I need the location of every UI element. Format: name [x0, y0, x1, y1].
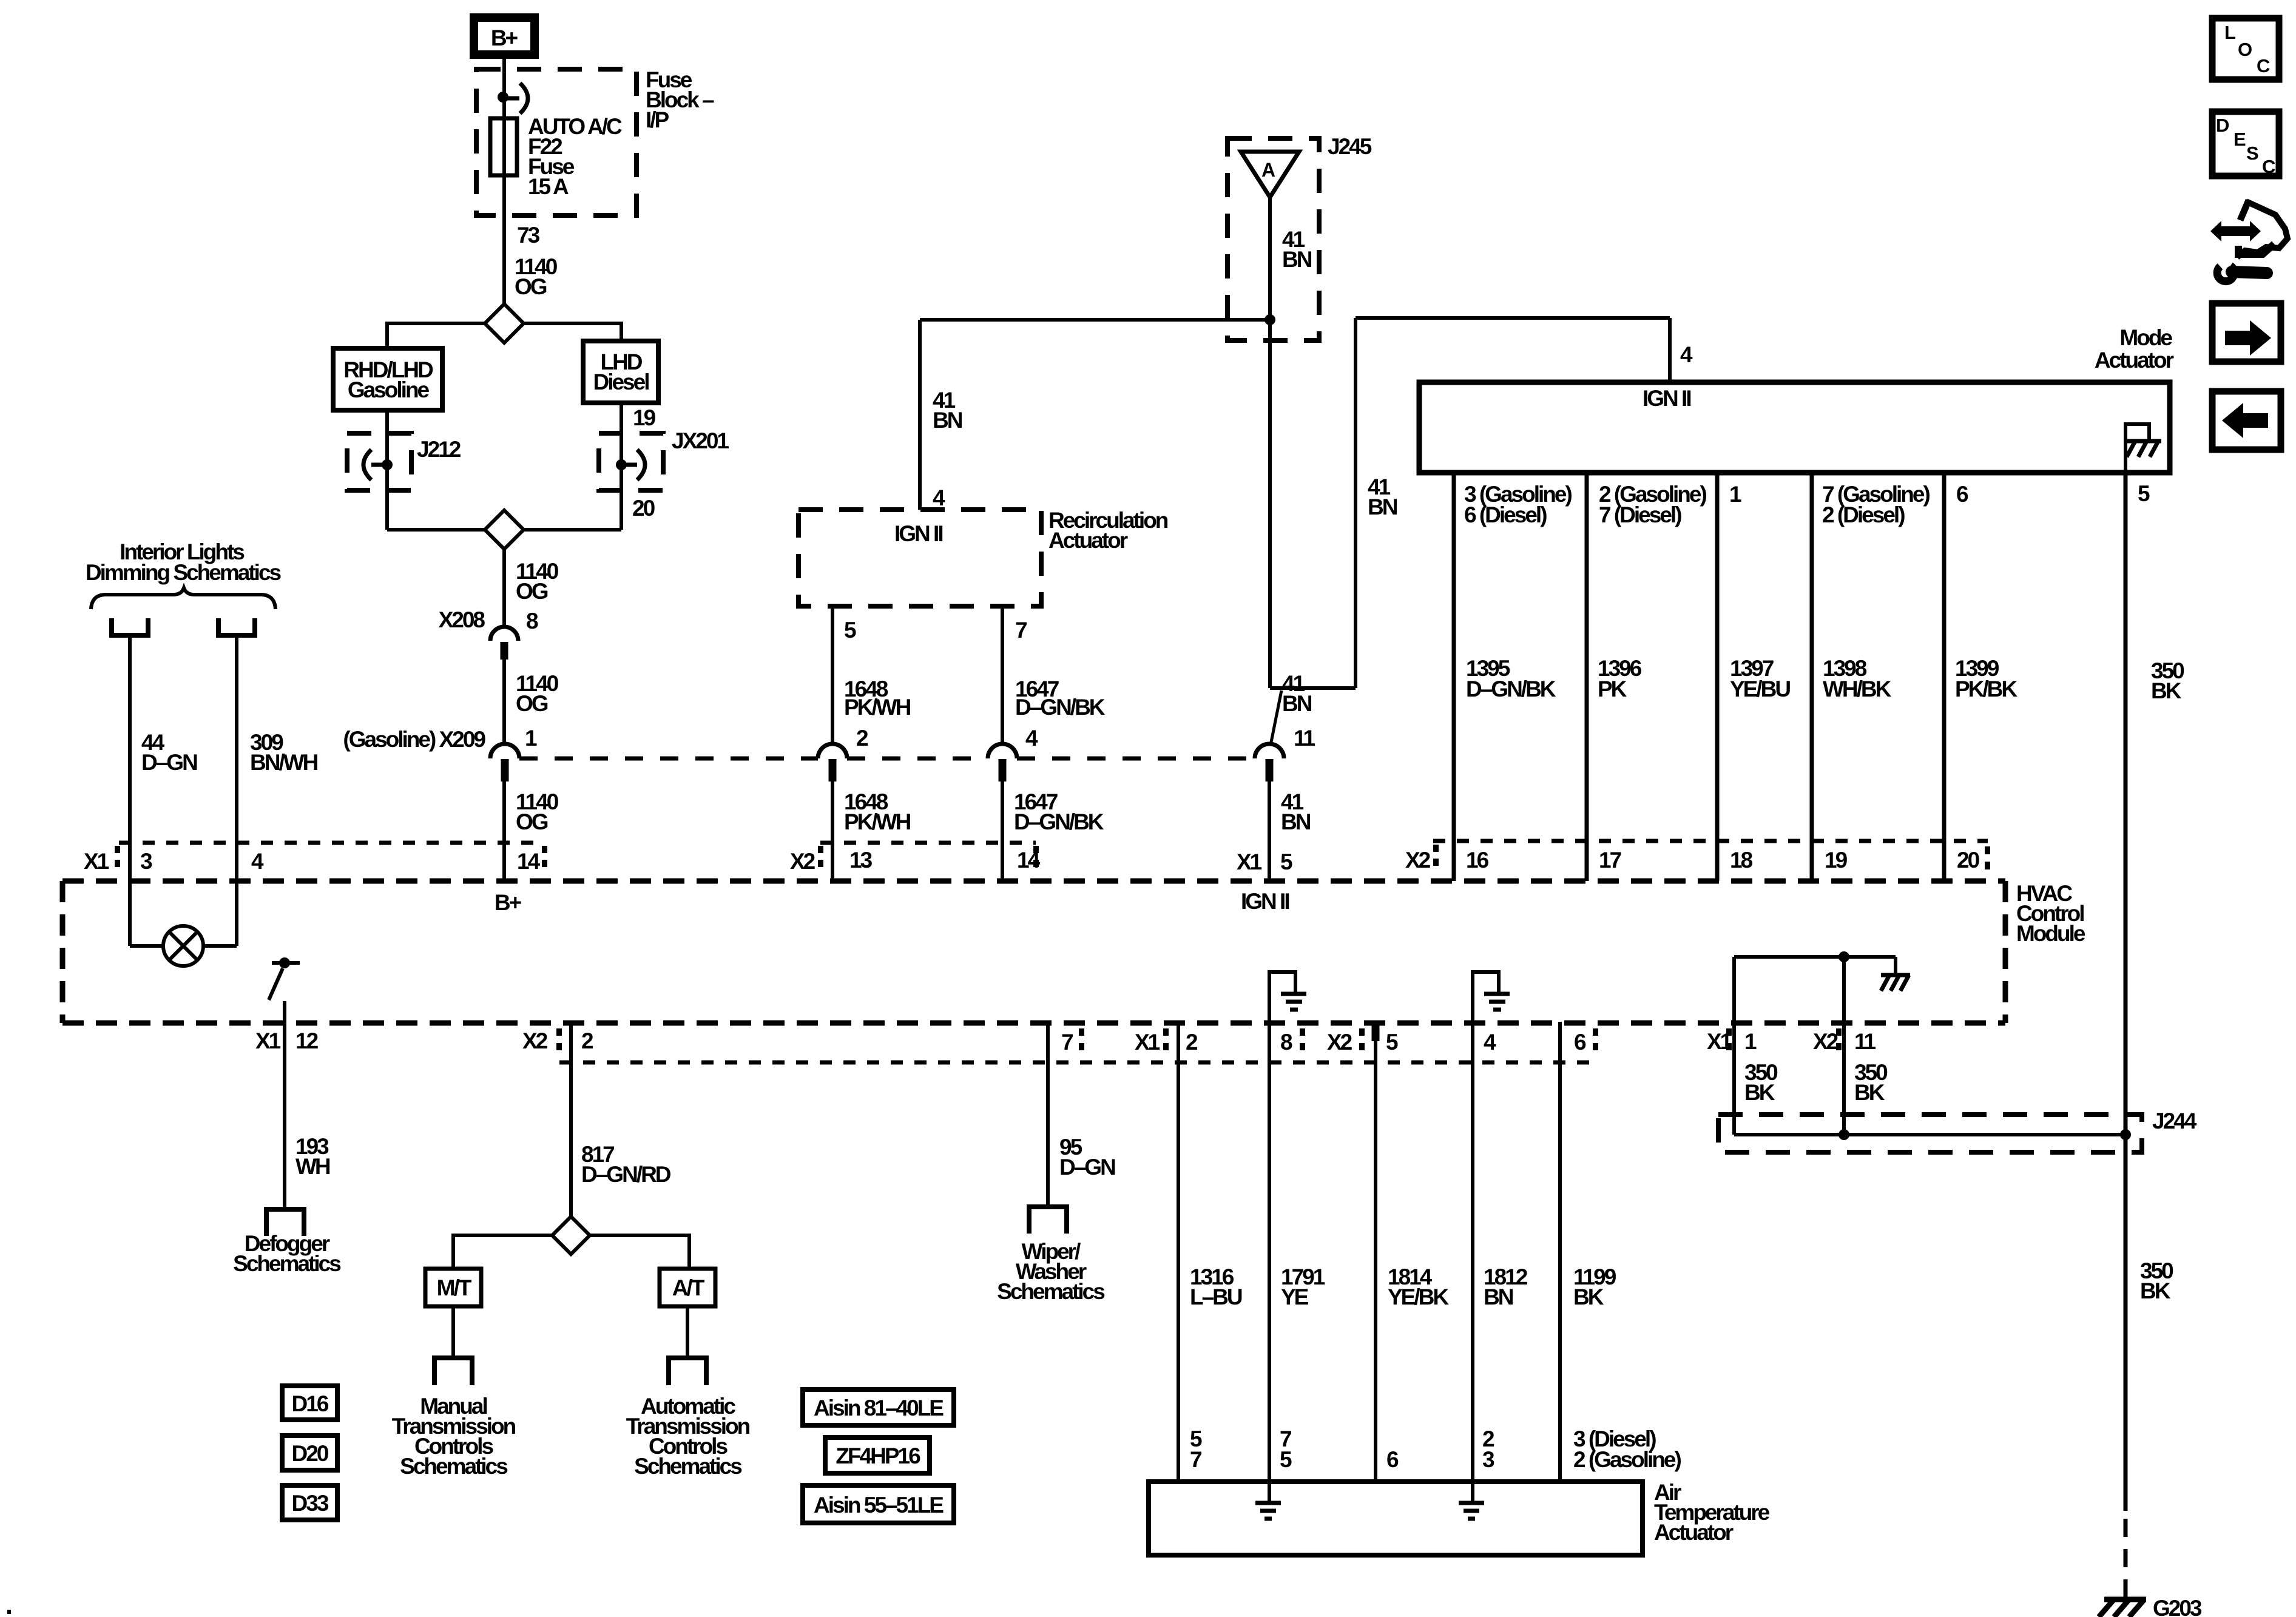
svg-text:16: 16 [1466, 848, 1489, 873]
mode actuator IGN II box [1419, 382, 2170, 473]
stray dot [7, 1610, 11, 1614]
wire 1395 D-GN/BK [1452, 473, 1456, 881]
svg-text:7: 7 [1190, 1447, 1201, 1472]
svg-text:6: 6 [1956, 482, 1968, 507]
svg-text:7: 7 [1061, 1030, 1073, 1055]
wire 1812 BN pin 4 [1471, 1022, 1474, 1502]
svg-text:73: 73 [517, 223, 540, 248]
offpage connector left [112, 618, 148, 635]
svg-text:6: 6 [1386, 1447, 1399, 1472]
svg-text:X2: X2 [1813, 1029, 1838, 1054]
svg-text:A: A [1261, 159, 1275, 181]
svg-text:D–GN/BK: D–GN/BK [1466, 677, 1556, 701]
wire B+ to fuse block and diamond [502, 59, 506, 304]
svg-text:20: 20 [632, 496, 655, 521]
ref box D16 [282, 1386, 337, 1420]
wire 1791 YE pin 8 [1268, 1022, 1271, 1502]
wire 1140 OG to module pin 14 [502, 781, 506, 881]
wire RHD branch down [385, 410, 389, 530]
wire merge right [524, 528, 621, 532]
svg-text:WH/BK: WH/BK [1823, 677, 1892, 701]
svg-text:BN: BN [1282, 691, 1312, 716]
svg-text:OG: OG [516, 579, 548, 604]
svg-text:5: 5 [1280, 849, 1292, 874]
svg-text:X1: X1 [1135, 1030, 1160, 1055]
icon adjust double arrow [2210, 221, 2261, 241]
wire 41 BN inside J245 [1268, 197, 1272, 320]
wire diagonal to pin 11 [1271, 690, 1281, 745]
pin box X1 top left [119, 841, 544, 845]
wire J244 bus [1734, 1133, 2125, 1136]
ground hook pin 8 [1269, 972, 1295, 1022]
svg-text:D: D [2216, 115, 2229, 136]
svg-text:PK: PK [1598, 677, 1627, 701]
svg-text:X1: X1 [255, 1028, 281, 1053]
svg-text:X1: X1 [1707, 1029, 1732, 1054]
wire 309 BN/WH [235, 635, 238, 946]
ref box D33 [282, 1485, 337, 1520]
svg-text:Schematics: Schematics [233, 1251, 341, 1276]
bottom pin row small dash [559, 1061, 1597, 1065]
lamp symbol [163, 926, 203, 966]
wire LHD branch down [620, 403, 623, 530]
svg-text:3: 3 [1482, 1447, 1494, 1472]
earth ground pin 8 [1281, 994, 1306, 1010]
svg-text:14: 14 [1017, 848, 1041, 873]
svg-text:Diesel: Diesel [593, 370, 649, 394]
connector arc pin 11 [1255, 744, 1284, 758]
splice pack J245 dashed box [1227, 138, 1319, 340]
svg-text:Module: Module [2016, 921, 2085, 946]
svg-text:M/T: M/T [437, 1275, 472, 1300]
svg-text:JX201: JX201 [672, 428, 729, 453]
svg-text:17: 17 [1599, 848, 1621, 873]
svg-text:1: 1 [525, 726, 537, 751]
offpage connector wiper/washer [1029, 1207, 1067, 1234]
svg-text:A/T: A/T [672, 1275, 705, 1300]
svg-text:B+: B+ [495, 890, 522, 915]
svg-text:5: 5 [844, 618, 856, 643]
splice diamond upper [485, 304, 524, 343]
wire 1397 YE/BU [1715, 473, 1720, 881]
fuse F22 15A [490, 118, 517, 175]
splice J212 dashed box [347, 433, 411, 490]
wire to recirculation actuator [920, 318, 1270, 322]
svg-text:19: 19 [633, 405, 656, 430]
svg-text:X2: X2 [1327, 1030, 1352, 1055]
svg-text:Schematics: Schematics [634, 1454, 742, 1479]
svg-text:(Gasoline) X209: (Gasoline) X209 [343, 727, 485, 752]
option box A/T [660, 1269, 715, 1306]
svg-text:YE/BU: YE/BU [1730, 677, 1790, 701]
option box RHD/LHD Gasoline [333, 348, 442, 410]
icon LOC box [2212, 18, 2279, 79]
svg-text:11: 11 [1294, 726, 1315, 751]
splice diamond 817 [552, 1217, 590, 1254]
node J245 junction [1264, 314, 1275, 325]
svg-text:15 A: 15 A [528, 174, 569, 199]
recirculation actuator dashed box [799, 510, 1041, 606]
wire A/T down [686, 1306, 689, 1358]
svg-text:D33: D33 [292, 1491, 329, 1516]
svg-text:WH: WH [295, 1154, 330, 1179]
wire 350 BK to G203 [2124, 1135, 2128, 1511]
svg-text:20: 20 [1957, 848, 1980, 873]
option box LHD Diesel [583, 341, 658, 403]
wire 44 D-GN [128, 635, 132, 946]
svg-text:IGN II: IGN II [894, 521, 942, 546]
wire 1199 BK pin 6 [1558, 1022, 1562, 1482]
offpage connector defogger [266, 1209, 304, 1236]
svg-text:BN/WH: BN/WH [250, 750, 318, 775]
ref box ZF4HP16 [825, 1437, 930, 1473]
svg-text:Dimming Schematics: Dimming Schematics [86, 560, 282, 585]
svg-text:BN: BN [1282, 247, 1312, 272]
svg-text:C: C [2262, 156, 2275, 177]
fuse clip terminal [503, 96, 519, 101]
wire left branch [387, 323, 485, 348]
chassis ground in mode box [2127, 441, 2161, 457]
svg-text:1: 1 [1744, 1029, 1757, 1054]
svg-text:1: 1 [1729, 482, 1741, 507]
pin X2 5 4 6 [1359, 1028, 1598, 1050]
svg-text:IGN II: IGN II [1643, 386, 1690, 411]
icon arrow left box [2212, 391, 2281, 450]
icon hand outline [2240, 200, 2249, 220]
wire 817 D-GN/RD from pin X2 2 [569, 1022, 573, 1217]
wire recirc pin 5 [831, 606, 834, 744]
svg-text:3: 3 [140, 849, 152, 874]
wire 1399 PK/BK [1942, 473, 1947, 881]
chassis ground internal [1881, 975, 1910, 991]
svg-text:Mode: Mode [2119, 325, 2172, 350]
svg-text:2 (Gasoline): 2 (Gasoline) [1573, 1447, 1681, 1472]
ref box Aisin 81-40LE [803, 1389, 954, 1425]
svg-text:Schematics: Schematics [400, 1454, 508, 1479]
svg-text:11: 11 [1854, 1029, 1876, 1054]
pin box X2 13 14 [820, 841, 1036, 845]
svg-text:J245: J245 [1328, 134, 1372, 159]
connector arc pin 4 [988, 744, 1017, 758]
svg-text:Schematics: Schematics [997, 1279, 1105, 1304]
svg-text:D16: D16 [292, 1391, 329, 1416]
svg-text:D20: D20 [292, 1441, 329, 1466]
svg-text:BK: BK [2151, 678, 2182, 703]
svg-text:D–GN: D–GN [1059, 1155, 1115, 1180]
pin X1 2 and 8 [1163, 1028, 1305, 1050]
svg-text:BK: BK [1854, 1080, 1885, 1105]
svg-text:18: 18 [1730, 848, 1753, 873]
svg-text:D–GN/BK: D–GN/BK [1015, 695, 1106, 720]
connector X208 [490, 627, 518, 641]
svg-text:BK: BK [1573, 1284, 1604, 1309]
svg-text:IGN II: IGN II [1241, 889, 1289, 914]
wire 350 BK from mode pin 5 [2124, 473, 2128, 1135]
wire 1814 YE/BK pin X2 5 [1372, 1024, 1380, 1041]
splice diamond lower [485, 510, 524, 549]
ref box Aisin 55-51LE [803, 1485, 954, 1523]
svg-text:D–GN/BK: D–GN/BK [1014, 809, 1104, 834]
svg-text:X208: X208 [439, 607, 485, 632]
icon wrench [2217, 266, 2234, 282]
svg-text:X2: X2 [1405, 848, 1431, 873]
svg-text:2: 2 [1186, 1030, 1198, 1055]
svg-text:D–GN/RD: D–GN/RD [581, 1162, 671, 1187]
svg-text:D–GN: D–GN [141, 750, 197, 775]
svg-text:X2: X2 [790, 849, 815, 874]
connector arc pin 2 [818, 744, 847, 758]
svg-text:J212: J212 [417, 437, 461, 462]
splice JX201 dashed box [599, 433, 663, 490]
svg-text:Aisin 55–51LE: Aisin 55–51LE [814, 1493, 944, 1517]
wire pin 4 into recirculation actuator [918, 320, 922, 510]
svg-text:OG: OG [516, 691, 548, 716]
svg-text:ZF4HP16: ZF4HP16 [836, 1443, 920, 1468]
svg-text:YE/BK: YE/BK [1388, 1284, 1449, 1309]
svg-text:PK/WH: PK/WH [844, 809, 911, 834]
svg-text:6: 6 [1574, 1030, 1586, 1055]
ground hook pin 4 [1473, 972, 1499, 1022]
switch [279, 957, 290, 968]
wire M/T down [451, 1306, 455, 1358]
wire 1396 PK [1585, 473, 1589, 881]
internal ground link in mode box [2125, 424, 2149, 473]
pin box X2 16-20 [1433, 839, 1988, 843]
svg-text:L: L [2224, 22, 2235, 43]
svg-text:7 (Diesel): 7 (Diesel) [1599, 502, 1681, 527]
pin X1 1 X2 11 [1726, 1028, 1842, 1050]
svg-text:7: 7 [1015, 618, 1027, 643]
wire 95 D-GN pin 7 [1046, 1022, 1050, 1205]
svg-text:J244: J244 [2152, 1109, 2197, 1133]
svg-text:PK/WH: PK/WH [844, 695, 911, 720]
svg-text:12: 12 [295, 1028, 319, 1053]
earth ground pin 4 [1484, 994, 1510, 1010]
wire pin 4 into mode actuator [1668, 318, 1672, 383]
svg-text:C: C [2257, 55, 2270, 76]
internal ground bus in module [1734, 955, 1896, 959]
svg-text:BN: BN [1281, 809, 1311, 834]
svg-text:BK: BK [1744, 1080, 1775, 1105]
svg-text:G203: G203 [2153, 1596, 2202, 1617]
wire 1398 WH/BK [1810, 473, 1814, 881]
svg-text:2 (Diesel): 2 (Diesel) [1822, 502, 1905, 527]
ref box D20 [282, 1436, 337, 1470]
svg-text:2: 2 [856, 726, 868, 751]
svg-text:8: 8 [1280, 1030, 1292, 1055]
earth ground inside air temp box left [1255, 1503, 1281, 1519]
wire merge left [387, 528, 485, 532]
air temperature actuator box [1149, 1482, 1643, 1555]
splice pack triangle A [1241, 152, 1299, 197]
splice J244 dashed box [1718, 1115, 2142, 1152]
svg-text:X1: X1 [1237, 849, 1262, 874]
wire lamp to pin 4 [203, 944, 237, 948]
dashed bus wire at connector row [519, 757, 818, 761]
svg-text:2: 2 [581, 1028, 593, 1053]
svg-text:L–BU: L–BU [1190, 1284, 1242, 1309]
HVAC control module outline [62, 879, 2005, 884]
svg-text:Actuator: Actuator [1048, 528, 1128, 553]
earth ground inside air temp box right [1459, 1503, 1484, 1519]
svg-text:5: 5 [1280, 1447, 1292, 1472]
wire pin 3 to lamp [130, 944, 163, 948]
wire down to X208 label 1140 OG [502, 549, 506, 626]
svg-text:S: S [2246, 143, 2258, 164]
svg-text:I/P: I/P [646, 107, 669, 132]
svg-text:Actuator: Actuator [2095, 348, 2174, 373]
svg-text:X2: X2 [522, 1028, 548, 1053]
wire 1648 to module pin 13 [831, 781, 834, 881]
pin 7 [1079, 1028, 1084, 1050]
svg-text:PK/BK: PK/BK [1955, 677, 2017, 701]
svg-text:YE: YE [1281, 1284, 1309, 1309]
svg-text:BN: BN [933, 408, 962, 433]
node junction in fuse block [498, 92, 508, 103]
pin X2 2 [556, 1028, 562, 1050]
wire 1647 to module pin 14 [1001, 781, 1004, 881]
wire to A/T [590, 1235, 689, 1269]
wire to M/T [453, 1235, 552, 1269]
connector X209 (Gasoline) [490, 744, 519, 758]
wire 1140 OG to X209 [502, 659, 506, 744]
svg-text:Actuator: Actuator [1654, 1520, 1734, 1545]
svg-text:BK: BK [2140, 1278, 2171, 1303]
svg-text:O: O [2238, 39, 2252, 60]
wire switch to pin X1 12 [283, 1001, 286, 1207]
svg-text:13: 13 [849, 848, 873, 873]
svg-text:X1: X1 [84, 849, 109, 874]
svg-text:5: 5 [2138, 481, 2150, 506]
wire 41 BN to module pin X1 5 [1268, 781, 1271, 881]
wire 41 BN down from J245 [1268, 320, 1272, 688]
offpage connector right [218, 618, 255, 635]
option box M/T [425, 1269, 481, 1306]
offpage connector auto trans [669, 1358, 706, 1385]
icon arrow right box [2212, 303, 2281, 362]
svg-text:OG: OG [515, 274, 547, 299]
chassis ground G203 [2099, 1599, 2146, 1617]
wire 1316 L-BU pin X1 2 [1177, 1022, 1180, 1482]
svg-text:19: 19 [1825, 848, 1848, 873]
svg-text:B+: B+ [491, 25, 518, 50]
wire 350 BK pin X2 11 [1842, 957, 1846, 1135]
offpage connector manual trans [434, 1358, 472, 1385]
wire recirc pin 7 [1001, 606, 1004, 744]
wire right branch [524, 323, 621, 341]
wire 350 BK pin X1 1 [1732, 957, 1736, 1135]
icon DESC box [2212, 112, 2279, 176]
svg-text:BN: BN [1368, 495, 1397, 519]
svg-text:14: 14 [517, 849, 541, 874]
svg-text:OG: OG [516, 809, 548, 834]
battery feed B+ symbol [474, 18, 535, 55]
svg-text:BN: BN [1484, 1284, 1513, 1309]
svg-text:Aisin 81–40LE: Aisin 81–40LE [814, 1396, 944, 1420]
wire link to mode actuator feed [1270, 686, 1356, 690]
brace [91, 588, 275, 609]
fuse block I/P dashed box [476, 69, 636, 215]
svg-text:5: 5 [1386, 1030, 1398, 1055]
svg-text:E: E [2234, 129, 2246, 150]
svg-text:Gasoline: Gasoline [348, 377, 430, 402]
svg-text:6 (Diesel): 6 (Diesel) [1464, 502, 1547, 527]
svg-text:8: 8 [526, 609, 538, 633]
